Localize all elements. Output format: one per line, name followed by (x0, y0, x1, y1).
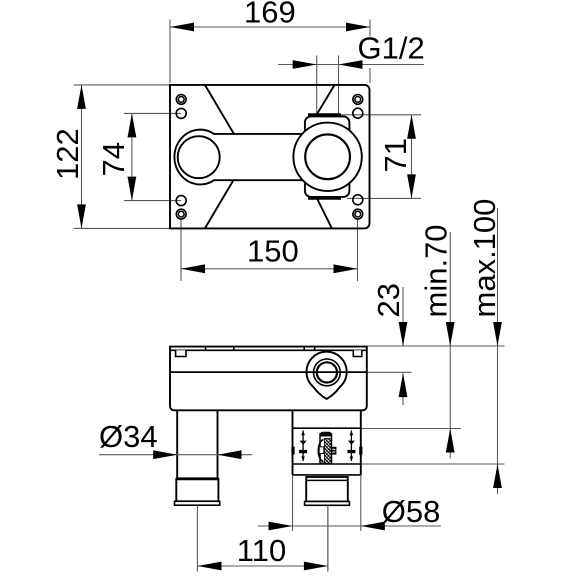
valve box right edge (360, 410, 362, 475)
left pipe right edge (217, 410, 219, 479)
left stop symbol down arrow (301, 457, 305, 462)
dimension 71 bottom arrow (407, 174, 416, 198)
right stop symbol line (350, 430, 352, 461)
svg-text:74: 74 (96, 142, 131, 176)
valve box wall-max line (293, 463, 361, 465)
spout axis extension line (367, 371, 412, 373)
right stop symbol up arrow (350, 431, 354, 436)
left boss inner circle (178, 136, 220, 178)
dimension min.70 down arrow (446, 322, 455, 346)
dimension Ø58 extension line right (360, 475, 362, 531)
right boss outer circle (293, 123, 361, 191)
svg-text:23: 23 (371, 283, 406, 317)
dimension 169 right arrow (346, 23, 370, 32)
right stop symbol bar (347, 450, 355, 453)
dimension 169 left arrow (170, 23, 194, 32)
dimension Ø58 left arrow (269, 522, 293, 531)
svg-text:71: 71 (378, 138, 413, 172)
spout port ring inner (317, 362, 337, 382)
dimension 110 left arrow (198, 562, 222, 571)
left stop symbol up arrow (301, 431, 305, 436)
right clip (353, 350, 362, 356)
valve box wall-min line (293, 427, 361, 429)
svg-text:max.100: max.100 (467, 199, 502, 318)
dimension 150 extension line left (180, 219, 182, 281)
dimension 150 extension line right (357, 219, 359, 281)
valve box bottom line (293, 474, 361, 476)
rail tick 3 (303, 347, 305, 351)
dimension max.100 line (497, 208, 499, 464)
dimension 110 right arrow (304, 562, 328, 571)
screw bottom-left inner (178, 211, 184, 217)
dimension 169 line (170, 26, 370, 28)
dimension Ø58 right arrow (361, 522, 385, 531)
dimension G1/2 extension line right (338, 56, 340, 115)
plate bottom cutout right angled edge (317, 199, 332, 228)
dimension 122 extension line top (74, 84, 171, 86)
max.100 extension line (361, 463, 505, 465)
connecting bar (dog-bone outline) with left boss arc (174, 130, 302, 185)
svg-text:150: 150 (247, 234, 299, 269)
dimension 110 line (198, 565, 328, 567)
dimension max.100 down arrow (493, 322, 502, 346)
svg-text:G1/2: G1/2 (358, 31, 425, 66)
mounting plate outline (170, 85, 370, 229)
dimension 150 line (181, 268, 358, 270)
dimension 122 bottom arrow (77, 204, 86, 228)
right boss thread circle (305, 134, 350, 179)
dimension min.70 line (449, 232, 451, 429)
dimension min.70 up arrow (446, 429, 455, 453)
dimension 150 left arrow (181, 264, 205, 273)
outlet socket rim (305, 502, 350, 506)
dimension 110 extension line right (327, 505, 329, 571)
left pipe collar (176, 479, 218, 502)
hole top-left (176, 108, 186, 118)
reference extension line at housing top (367, 345, 505, 347)
min.70 extension line (361, 428, 461, 430)
hole bottom-right (353, 195, 363, 205)
plate bottom cutout left angled edge (205, 179, 234, 228)
dimension 150 right arrow (334, 264, 358, 273)
screw top-right outer (353, 95, 363, 105)
svg-text:110: 110 (237, 533, 286, 568)
spout port ring outer (314, 359, 341, 386)
spout port drop outline (307, 352, 347, 399)
G1/2 union square flange (305, 116, 350, 196)
dimension G1/2 line (278, 64, 424, 66)
valve box left edge (292, 410, 294, 475)
hole top-right (353, 108, 363, 118)
central cartridge cap (320, 432, 332, 437)
dimension Ø34 left arrow (153, 450, 177, 459)
dimension 74 line (131, 113, 133, 200)
dimension 74 extension line bottom (124, 200, 181, 202)
screw bottom-right inner (355, 211, 361, 217)
G1/2 union top flat (bold) (308, 113, 341, 116)
dimension 71 extension line top (341, 114, 421, 116)
left pipe left edge (176, 410, 178, 479)
rail tick 4 (314, 347, 316, 351)
plate top cutout left angled edge (205, 85, 234, 134)
dimension 71 line (411, 115, 413, 199)
dimension 122 extension line bottom (74, 227, 171, 229)
right stop symbol triangle (348, 441, 355, 445)
screw bottom-right outer (353, 209, 363, 219)
left pipe rim (175, 501, 220, 505)
plate top cutout right angled edge (317, 85, 335, 115)
valve box right edge black tick (359, 447, 362, 455)
screw bottom-left outer (176, 209, 186, 219)
screw top-left outer (176, 95, 186, 105)
svg-text:169: 169 (244, 0, 296, 30)
outlet socket box (306, 477, 348, 502)
dimension 71 extension line bottom (347, 197, 421, 199)
svg-text:Ø58: Ø58 (382, 494, 441, 529)
dimension Ø58 line (258, 525, 441, 527)
dimension 23 line (402, 287, 404, 346)
dimension max.100 up arrow (493, 464, 502, 488)
outlet socket centerline (327, 505, 329, 571)
screw top-left inner (178, 97, 184, 103)
dimension G1/2 extension line left (316, 56, 318, 115)
dimension G1/2 left arrow (293, 60, 317, 69)
left stop symbol line (302, 430, 304, 461)
rail tick 1 (205, 347, 207, 351)
svg-text:min.70: min.70 (419, 224, 454, 317)
screw top-right inner (355, 97, 361, 103)
dimension Ø34 right arrow (218, 450, 242, 459)
dimension G1/2 right arrow (339, 60, 363, 69)
central cartridge white slot (319, 447, 324, 454)
svg-text:122: 122 (50, 128, 85, 180)
dimension 74 top arrow (128, 113, 137, 137)
hole bottom-left (176, 196, 186, 206)
housing rail bottom line (170, 349, 367, 351)
rail tick 2 (233, 347, 235, 351)
left stop symbol bar (299, 450, 307, 453)
dimension 122 line (81, 85, 83, 229)
dimension 23 up arrow (399, 373, 408, 397)
central cartridge right square (332, 447, 337, 455)
dimension Ø34 line (99, 454, 252, 456)
right stop symbol down arrow (350, 457, 354, 462)
dimension Ø58 extension line left (292, 475, 294, 531)
dimension 169 extension line left (169, 20, 171, 84)
left clip (176, 350, 186, 356)
dimension 122 top arrow (77, 85, 86, 109)
housing outline (170, 347, 367, 411)
svg-text:Ø34: Ø34 (99, 419, 158, 454)
dimension 74 extension line top (124, 112, 181, 114)
dimension 23 down arrow (399, 322, 408, 346)
G1/2 union bottom flat (bold) (308, 197, 341, 200)
left stop symbol triangle (300, 441, 307, 445)
left pipe bold shoulder (176, 477, 218, 480)
outlet socket inner top line (306, 479, 348, 481)
central cartridge left C profile (318, 440, 323, 462)
dimension 74 bottom arrow (128, 177, 137, 201)
valve box left edge black tick (291, 447, 294, 455)
housing mid line (170, 371, 367, 373)
left pipe centerline (196, 505, 198, 571)
central cartridge outline (320, 434, 332, 463)
dimension 71 top arrow (407, 115, 416, 139)
dimension 169 extension line right (broken around G1/2 text) (369, 20, 371, 37)
